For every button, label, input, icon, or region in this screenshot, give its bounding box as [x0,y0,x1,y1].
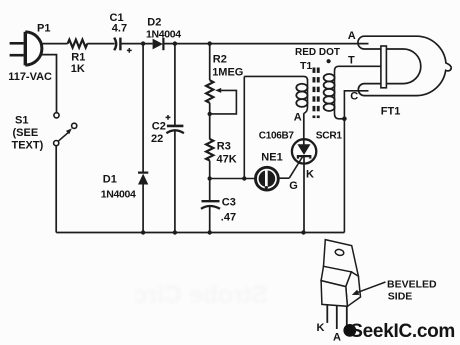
svg-text:SCR1: SCR1 [316,131,343,142]
svg-text:TEXT): TEXT) [12,140,44,152]
svg-text:K: K [317,322,325,334]
svg-text:S1: S1 [15,115,28,127]
svg-text:T: T [348,54,355,66]
svg-text:G: G [289,180,298,192]
svg-text:A: A [294,111,302,123]
svg-text:1MEG: 1MEG [212,67,243,79]
svg-text:SeekIC.com: SeekIC.com [350,321,455,342]
svg-text:A: A [348,30,356,42]
svg-text:D2: D2 [147,17,161,29]
svg-text:RED DOT: RED DOT [295,47,340,58]
svg-text:C2: C2 [152,121,166,133]
svg-text:C: C [350,91,358,103]
svg-text:R2: R2 [213,54,227,66]
svg-text:R1: R1 [71,51,85,63]
svg-text:BEVELED: BEVELED [387,279,437,291]
svg-text:117-VAC: 117-VAC [8,71,52,83]
svg-text:22: 22 [151,133,163,145]
svg-text:T1: T1 [300,60,312,72]
svg-text:FT1: FT1 [381,106,401,118]
svg-text:47K: 47K [217,154,237,166]
svg-text:A: A [333,331,341,343]
svg-text:1N4004: 1N4004 [101,189,136,201]
svg-text:4.7: 4.7 [112,23,127,35]
svg-text:C106B7: C106B7 [259,131,295,142]
svg-text:D1: D1 [103,174,117,186]
svg-text:1K: 1K [71,63,85,75]
svg-text:NE1: NE1 [261,152,282,164]
svg-text:C3: C3 [222,197,236,209]
svg-text:.47: .47 [221,212,236,224]
svg-text:K: K [306,168,314,180]
svg-text:1N4004: 1N4004 [146,29,181,41]
svg-text:(SEE: (SEE [13,127,39,139]
svg-text:P1: P1 [37,23,50,35]
svg-text:SIDE: SIDE [388,291,413,303]
svg-text:R3: R3 [217,141,231,153]
